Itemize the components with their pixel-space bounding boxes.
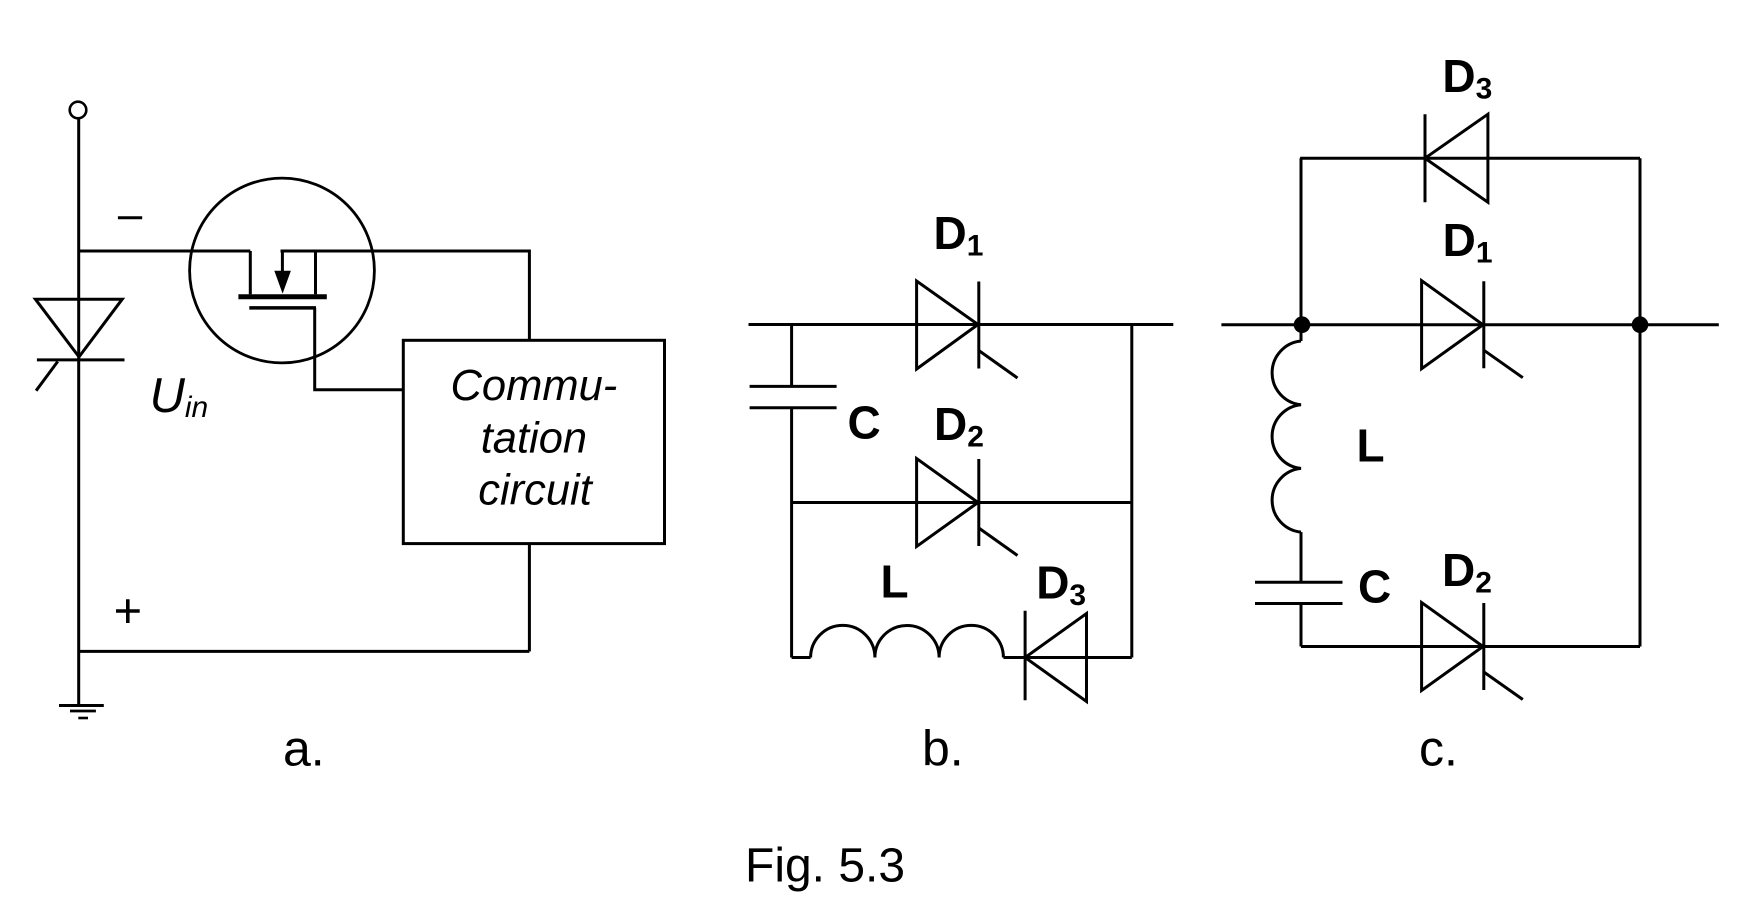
svg-text:C: C — [848, 396, 881, 448]
svg-text:Commu-: Commu- — [451, 362, 618, 410]
svg-text:L: L — [1357, 420, 1385, 472]
svg-text:tation: tation — [481, 415, 587, 463]
svg-text:circuit: circuit — [478, 467, 594, 515]
svg-text:C: C — [1358, 561, 1391, 613]
svg-text:a.: a. — [283, 721, 325, 777]
svg-text:Fig. 5.3: Fig. 5.3 — [745, 840, 905, 893]
svg-text:L: L — [881, 556, 909, 608]
svg-text:c.: c. — [1419, 721, 1458, 777]
svg-text:b.: b. — [922, 721, 964, 777]
